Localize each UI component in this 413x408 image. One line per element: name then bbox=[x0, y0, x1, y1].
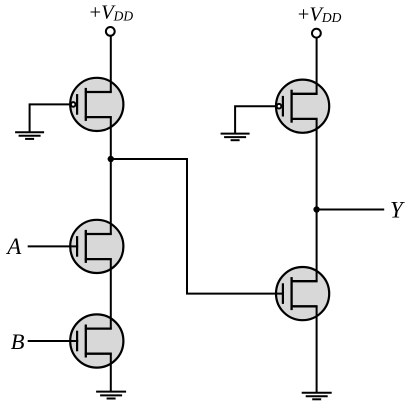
node: NAND output junction dot bbox=[108, 156, 114, 162]
wire: QB source to bottom-left ground bbox=[110, 354, 112, 392]
wire: Y node to label bbox=[317, 209, 385, 211]
svg-text:B: B bbox=[11, 329, 25, 354]
wire: input A to QA gate bbox=[28, 245, 78, 247]
wire: Q2 source to Q3 drain bbox=[316, 119, 318, 281]
node: Y output junction dot bbox=[313, 206, 319, 212]
wire: Q1 source to output node bbox=[110, 117, 112, 159]
wire: Q2 gate to right ground bbox=[235, 106, 276, 133]
wire: output node to QA drain bbox=[110, 159, 112, 234]
wire: Q1 gate to left ground bbox=[30, 104, 71, 132]
transistor Q3 (output driver MOSFET) bbox=[276, 267, 329, 320]
ground (Q2 gate) bbox=[221, 134, 250, 141]
transistor QA (input A MOSFET) bbox=[70, 220, 123, 273]
ground (bottom left) bbox=[96, 392, 126, 399]
wire: Q3 source to bottom-right ground bbox=[316, 306, 318, 392]
svg-text:+VDD: +VDD bbox=[90, 2, 134, 24]
power terminal +VDD (left) bbox=[106, 27, 115, 36]
transistor Q2 (right load MOSFET, gate bubble) bbox=[276, 80, 329, 133]
wire: left VDD terminal to Q1 drain bbox=[110, 36, 112, 92]
transistor QB (input B MOSFET) bbox=[70, 314, 123, 367]
transistor Q1 (left load MOSFET, gate bubble) bbox=[70, 78, 123, 131]
power terminal +VDD (right) bbox=[312, 29, 321, 38]
svg-text:A: A bbox=[5, 234, 22, 259]
svg-text:+VDD: +VDD bbox=[298, 3, 342, 25]
wire: NAND node to Q3 gate bbox=[111, 159, 284, 294]
wire: input B to QB gate bbox=[28, 340, 78, 342]
ground (Q1 gate) bbox=[15, 132, 44, 139]
wire: QA source to QB drain bbox=[110, 259, 112, 329]
ground (bottom right) bbox=[302, 393, 332, 400]
wire: right VDD terminal to Q2 drain bbox=[316, 38, 318, 94]
svg-text:Y: Y bbox=[390, 198, 405, 223]
